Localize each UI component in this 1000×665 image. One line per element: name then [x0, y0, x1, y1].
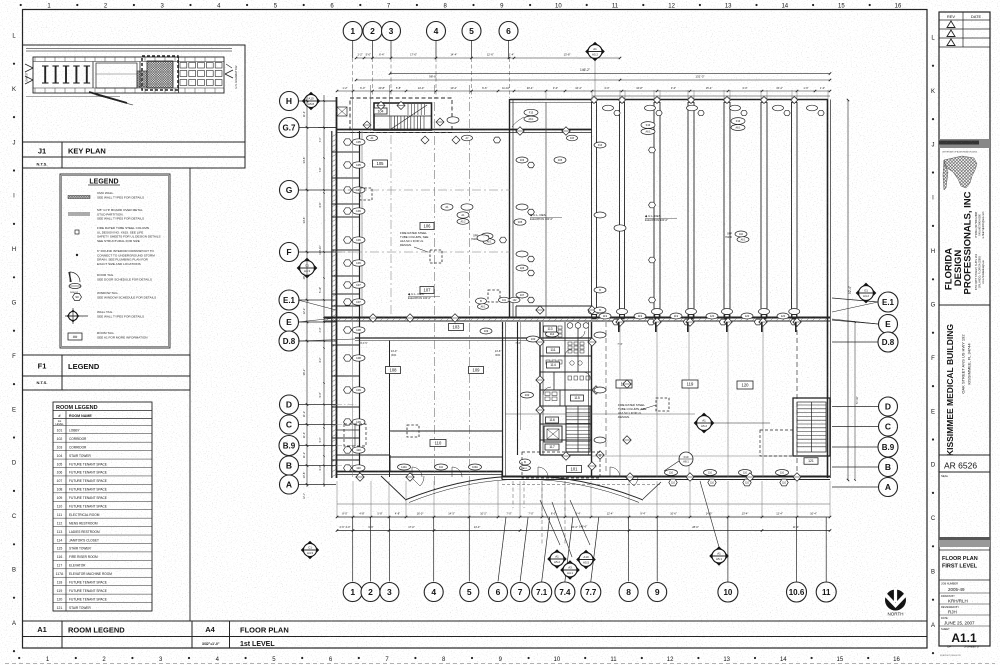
room tag 104 — [374, 108, 387, 114]
top dim row B overall 146-2 — [390, 73, 830, 75]
lower area verticals — [619, 322, 621, 477]
bottom segment dimensions row1 — [337, 516, 830, 518]
more core fixtures — [568, 376, 572, 380]
bottom dims row2 — [337, 530, 830, 532]
key plan box — [23, 45, 246, 142]
D.8 wall — [355, 337, 592, 339]
entry plaza arc (big canopy curve) — [405, 476, 643, 500]
stair tower 121 — [793, 398, 830, 456]
F1 LEGEND title bar — [23, 355, 191, 376]
F row tag C1 — [301, 541, 319, 559]
storefront window tags row (bottom of mullions) — [589, 309, 600, 315]
south exterior wall stepped — [337, 471, 503, 473]
legend items — [68, 196, 90, 199]
west wall jog bottom — [337, 454, 391, 456]
title block outer frame — [939, 12, 990, 646]
dashed canopy right — [760, 430, 793, 456]
west strip inner wall — [359, 131, 361, 477]
logo header band — [939, 139, 990, 148]
circle tag F10/A8.1 — [679, 452, 693, 466]
west strip room/window tags — [344, 139, 352, 145]
window element on west wall H-G.7 — [337, 107, 347, 116]
central wall tag column — [516, 157, 528, 163]
E wall window tag row — [599, 313, 611, 319]
core door arcs — [543, 387, 551, 395]
H row tag diamond — [302, 92, 320, 110]
scattered wall diamonds — [356, 127, 801, 481]
misc leader ovals upper plan — [441, 204, 453, 210]
diag leaders from E1/E right — [832, 302, 878, 312]
tick rise lines above storefront wall — [545, 90, 547, 100]
E wall stub walls between tenant bays — [618, 322, 620, 332]
G.7 long wall — [337, 129, 593, 131]
dashed column boxes — [407, 425, 419, 437]
grid line 1,2,3 verticals top — [352, 85, 354, 131]
key plan center court — [92, 62, 94, 89]
D-line leader in right tenant area — [505, 413, 695, 415]
core partitions — [540, 337, 592, 339]
west wall hatch — [332, 134, 337, 137]
diamond markers on storefront top wall — [591, 97, 598, 104]
leader lines from bottom diamonds to plan — [540, 500, 560, 545]
central wall (grid 6) — [509, 99, 511, 318]
corridor 103 walls above E wall — [516, 305, 592, 307]
left vertical dimension lines — [306, 95, 308, 487]
key plan diagonal road — [89, 92, 127, 103]
E wall hatch — [326, 318, 330, 322]
room tag boxes interior — [386, 367, 401, 374]
east exterior wall (grid 11) — [827, 100, 829, 479]
center-right big diamond A1/A5.2 — [694, 413, 715, 434]
tag cluster at G.7 wall — [367, 135, 378, 141]
canopy dashed lines below south wall — [502, 484, 660, 486]
revision table REV/DATE — [939, 19, 990, 21]
tenant bay interior line — [592, 455, 793, 457]
grid 4,5 dash-dot centerlines — [434, 85, 436, 494]
key plan road lines — [26, 48, 232, 50]
grid bubbles bottom — [343, 583, 362, 602]
bottom light dim line — [337, 503, 830, 505]
stair block dashed surround — [350, 98, 452, 133]
grid bubbles left H..A — [280, 92, 299, 111]
room legend table — [53, 402, 152, 611]
scale bar band — [939, 537, 990, 547]
restroom fixtures — [546, 326, 550, 329]
F13/A8.1 tag pair near grid 6 — [524, 109, 538, 115]
hexagon+oval pairs G.7 right — [649, 147, 656, 153]
west exterior wall (grid 1) — [331, 131, 333, 478]
G row spot tags — [457, 212, 469, 218]
stair block diamonds — [377, 102, 385, 110]
key plan right units — [180, 63, 187, 69]
lobby north wall at B — [390, 456, 502, 458]
stair 104 hatching — [390, 116, 392, 130]
dashed rect around core bottom — [522, 452, 600, 478]
corridor 102 wall left of core — [517, 322, 519, 455]
B/A8.1 pair lower — [476, 298, 487, 304]
dim drop lines at mullions — [592, 95, 830, 97]
top segment dimensions row D — [337, 90, 830, 92]
right column tags along 7.7 wall — [594, 142, 606, 148]
key plan west arrows — [25, 64, 33, 68]
storefront top wall — [510, 99, 829, 101]
A4 FLOOR PLAN bar — [192, 621, 927, 637]
north arrow — [885, 590, 906, 611]
top dim row C 98-8 / 131-3 — [356, 79, 830, 81]
extra tags on storefront wall top — [603, 105, 614, 111]
key plan building outline — [33, 57, 224, 93]
entry door swings — [410, 476, 424, 486]
left panel divider line — [189, 168, 191, 621]
left mid diamond C1 — [297, 258, 318, 279]
bottom dim extension lines — [336, 481, 338, 517]
arc end leader diagonals — [381, 476, 405, 499]
A1 ROOM LEGEND bar — [23, 621, 193, 637]
B.9 niche dashed — [344, 424, 366, 446]
room 110 north wall — [390, 430, 502, 432]
elevator 117 — [544, 426, 562, 442]
right diamond G1/A4.2 — [856, 283, 877, 304]
stair 115 hatch — [566, 406, 590, 452]
core outer walls — [539, 322, 541, 455]
stair room 104 walls — [374, 103, 432, 130]
lobby interior walls — [389, 341, 391, 478]
tag 110/A8.1 right top — [731, 118, 745, 125]
open area room boxes — [616, 380, 632, 388]
key plan unit columns — [42, 65, 49, 67]
core room tags — [546, 331, 559, 337]
interior partition at C — [337, 429, 361, 431]
E1 slant leaders left — [298, 300, 336, 310]
scan noise overlay — [0, 0, 1, 1]
bottom detail diamonds — [547, 549, 567, 569]
key plan east arrows — [225, 70, 233, 74]
west strip partitions — [332, 151, 360, 153]
storefront vertical mullions — [545, 102, 547, 318]
Florida state logo (hatched) — [944, 156, 977, 188]
tag F13/A8.1 top — [641, 122, 655, 129]
grid bubbles right — [878, 292, 898, 312]
right vertical dimension — [847, 100, 849, 480]
south wall tags: ovals above, hex below — [665, 470, 678, 476]
dashed grid continuation lines (centerlines through plan) — [336, 189, 356, 191]
top-left corner tick details — [318, 100, 336, 102]
legend box — [60, 174, 170, 348]
E wall long horizontal — [324, 317, 830, 319]
top dim row A (y58, between bubbles) — [356, 57, 620, 59]
key plan highlighted area (hatched) — [142, 56, 178, 90]
grid bubbles top 1-6 — [352, 41, 354, 59]
top center detail marker — [585, 42, 605, 62]
storefront column squares top/bottom — [592, 98, 596, 102]
key plan title bar J1 KEY PLAN — [23, 142, 246, 157]
dashed vertical drop from 7.1/7.4 bubbles — [541, 481, 543, 546]
top-left wing west wall — [336, 98, 338, 131]
core extra doors — [565, 349, 572, 356]
door swings on south wall — [412, 467, 422, 477]
